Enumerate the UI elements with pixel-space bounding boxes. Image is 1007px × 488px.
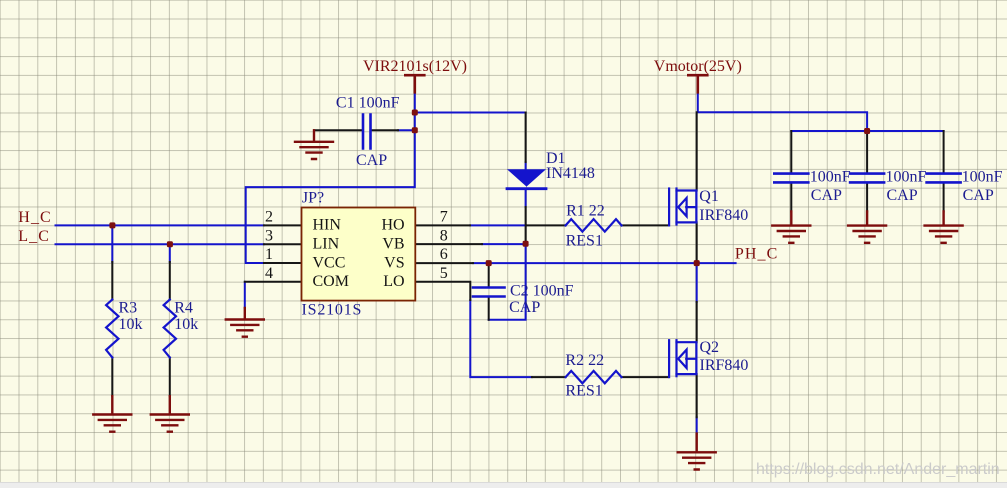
resistor R3 zigzag	[106, 300, 118, 358]
svg-text:100nF: 100nF	[886, 169, 927, 186]
svg-text:https://blog.csdn.net/Ander_ma: https://blog.csdn.net/Ander_martin	[756, 461, 1000, 478]
resistor R2 zigzag	[566, 371, 622, 383]
ground (cap bank 3)	[925, 212, 963, 243]
wire COM to ground	[244, 282, 246, 308]
svg-text:IRF840: IRF840	[699, 207, 748, 224]
wire H_C to R3	[111, 225, 113, 262]
svg-text:CAP: CAP	[963, 187, 994, 204]
wire Q2 source to ground	[696, 417, 698, 433]
transistor Q2 IRF840	[669, 340, 696, 377]
svg-text:8: 8	[440, 227, 448, 244]
svg-text:Q2: Q2	[700, 339, 720, 356]
diode D1	[507, 169, 546, 188]
pin 2 HIN	[264, 224, 302, 226]
svg-text:C2 100nF: C2 100nF	[510, 283, 574, 300]
svg-text:Vmotor(25V): Vmotor(25V)	[654, 58, 742, 75]
svg-text:VCC: VCC	[313, 254, 346, 271]
pin 3 LIN	[264, 243, 302, 245]
diode D1 cathode pin	[525, 207, 527, 244]
power port VIR2101s(12V)	[405, 75, 424, 92]
svg-text:RES1: RES1	[566, 232, 603, 249]
node H_C/R3 junction	[109, 222, 115, 228]
node Q1 source/PH_C junction	[694, 260, 700, 266]
node VIR wire junction	[412, 110, 418, 116]
wire HO to R1	[470, 224, 526, 226]
ground (R4)	[151, 396, 189, 432]
resistor R3 pins	[111, 262, 113, 396]
pin 5 LO	[415, 282, 470, 300]
svg-text:C1 100nF: C1 100nF	[336, 95, 400, 112]
wire L_C net	[56, 243, 265, 245]
node cap bus junction	[864, 128, 870, 134]
svg-text:100nF: 100nF	[810, 169, 851, 186]
wire PH_C net	[473, 262, 736, 264]
node D1/VB junction	[523, 241, 529, 247]
transistor Q1 drain/source pins	[696, 112, 698, 263]
transistor Q1 IRF840	[669, 189, 696, 226]
svg-text:L_C: L_C	[18, 228, 50, 245]
wire C2 bootstrap loop	[489, 244, 526, 320]
node L_C/R4 junction	[167, 241, 173, 247]
svg-text:7: 7	[440, 209, 448, 226]
resistor R1 pins	[526, 224, 669, 226]
node C2/VS junction	[486, 260, 492, 266]
svg-text:CAP: CAP	[887, 187, 918, 204]
svg-text:VB: VB	[382, 236, 404, 253]
wire VIR2101s vertical to VCC	[246, 92, 415, 263]
ground (COM pin 4)	[226, 308, 264, 337]
wire H_C net	[56, 224, 265, 226]
svg-text:LIN: LIN	[313, 236, 340, 253]
wire Q1 source to PH_C below dot	[696, 263, 698, 302]
node C1 wire junction	[412, 127, 418, 133]
capacitor bank pins	[791, 131, 943, 212]
wire Vmotor to cap bus	[698, 92, 944, 131]
svg-text:10k: 10k	[119, 316, 143, 333]
diode D1 anode pin	[525, 113, 527, 163]
svg-text:10k: 10k	[174, 316, 198, 333]
svg-text:RES1: RES1	[565, 382, 602, 399]
svg-text:4: 4	[265, 265, 273, 282]
wire VIR node to diode D1	[415, 112, 526, 114]
ground (R3)	[93, 396, 131, 432]
pin 8 VB	[415, 243, 482, 245]
wire C1 right stub	[398, 129, 415, 131]
transistor Q2 drain/source pins	[696, 302, 698, 417]
svg-text:CAP: CAP	[356, 152, 387, 169]
wire VB to D1 cathode	[482, 243, 526, 245]
pin 7 HO	[415, 224, 470, 226]
svg-text:IN4148: IN4148	[546, 165, 595, 182]
resistor R2 pins	[532, 376, 669, 378]
svg-text:PH_C: PH_C	[735, 245, 779, 262]
wire L_C to R4	[169, 244, 171, 262]
svg-text:1: 1	[265, 246, 273, 263]
capacitor C2 plates	[473, 288, 505, 297]
power port Vmotor(25V)	[688, 75, 707, 92]
component JP? IS2101S body	[302, 208, 416, 301]
svg-text:5: 5	[440, 265, 448, 282]
wire diode cathode stub	[525, 190, 527, 208]
svg-text:VIR2101s(12V): VIR2101s(12V)	[363, 58, 467, 75]
svg-text:HIN: HIN	[313, 217, 342, 234]
svg-text:LO: LO	[383, 273, 404, 290]
svg-text:R2 22: R2 22	[565, 352, 604, 369]
svg-text:100nF: 100nF	[962, 169, 1003, 186]
svg-text:2: 2	[265, 209, 273, 226]
capacitor C1 pins	[314, 129, 398, 131]
svg-text:H_C: H_C	[18, 209, 52, 226]
svg-text:R3: R3	[119, 300, 138, 317]
svg-text:3: 3	[265, 227, 273, 244]
resistor R4 zigzag	[164, 300, 176, 358]
svg-text:VS: VS	[384, 254, 404, 271]
svg-text:COM: COM	[313, 273, 349, 290]
svg-text:HO: HO	[381, 217, 404, 234]
svg-text:CAP: CAP	[811, 187, 842, 204]
ground (C1)	[295, 130, 333, 159]
svg-text:R1 22: R1 22	[566, 203, 605, 220]
svg-text:IS2101S: IS2101S	[302, 302, 363, 319]
svg-text:6: 6	[440, 246, 448, 263]
capacitor C1 plates	[363, 115, 371, 149]
resistor R4 pins	[169, 262, 171, 396]
ground (cap bank 1)	[772, 212, 810, 243]
svg-text:JP?: JP?	[302, 189, 324, 206]
svg-text:Q1: Q1	[699, 188, 719, 205]
svg-text:IRF840: IRF840	[700, 357, 749, 374]
wire diode anode stub	[525, 162, 527, 169]
wire LO drop	[470, 300, 532, 377]
capacitor C2 pins	[488, 263, 490, 320]
pin 1 VCC	[264, 262, 302, 264]
ground (cap bank 2)	[848, 212, 886, 243]
ground (Q2 source)	[678, 434, 716, 470]
bottom scrollbar strip	[0, 482, 1007, 488]
resistor R1 zigzag	[566, 219, 622, 231]
pin 6 VS	[415, 262, 473, 264]
svg-text:CAP: CAP	[509, 299, 540, 316]
pin 4 COM	[245, 281, 302, 283]
capacitor bank plates	[774, 174, 960, 183]
svg-text:R4: R4	[174, 300, 193, 317]
